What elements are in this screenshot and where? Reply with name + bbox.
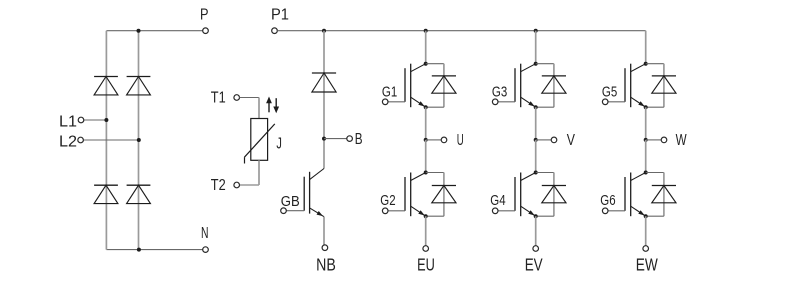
terminal P xyxy=(203,28,209,34)
transistor G3 IGBT xyxy=(498,64,536,107)
diode FWD G5 xyxy=(652,76,676,93)
wire right rail xyxy=(138,31,140,250)
terminal GB xyxy=(281,208,287,214)
label G2 xyxy=(380,193,395,209)
wire leg V rail top xyxy=(535,31,537,64)
wire node V branch xyxy=(536,139,552,141)
svg-text:G3: G3 xyxy=(492,84,507,100)
svg-text:EU: EU xyxy=(417,254,435,274)
svg-text:L1: L1 xyxy=(59,114,77,131)
thermistor J body xyxy=(251,119,268,161)
junction emitter G1 xyxy=(424,105,428,109)
diode D3 xyxy=(127,77,151,95)
temperature arrow up xyxy=(266,97,272,113)
svg-text:G6: G6 xyxy=(600,193,615,209)
diode FWD G6 loop xyxy=(646,173,664,217)
junction bus V xyxy=(534,29,538,33)
label EU xyxy=(417,254,435,274)
wire leg V rail mid1 xyxy=(535,107,537,140)
terminal G4 xyxy=(492,208,498,214)
svg-text:W: W xyxy=(676,132,688,149)
diode FWD G5 loop xyxy=(646,64,664,107)
svg-text:G4: G4 xyxy=(490,193,505,209)
svg-text:G2: G2 xyxy=(380,193,395,209)
junction bus brake xyxy=(322,29,326,33)
wire node B branch xyxy=(324,138,347,140)
diode FWD G3 xyxy=(542,76,566,93)
temperature arrow down xyxy=(273,98,279,113)
terminal V xyxy=(551,137,557,143)
wire leg U rail top xyxy=(425,31,427,64)
junction node L1 xyxy=(104,118,108,122)
label GB xyxy=(281,194,300,210)
transistor brake IGBT xyxy=(286,169,324,217)
junction emitter G2 xyxy=(424,214,428,218)
svg-text:GB: GB xyxy=(281,194,300,210)
wire node W branch xyxy=(646,139,662,141)
junction bottom right rail xyxy=(137,248,141,252)
terminal L1 xyxy=(78,117,84,123)
svg-text:L2: L2 xyxy=(59,134,77,151)
diode FWD G1 xyxy=(432,76,456,93)
diode D2 xyxy=(94,185,118,203)
junction node U xyxy=(424,138,428,142)
svg-text:P: P xyxy=(200,7,209,24)
terminal G5 xyxy=(602,99,608,105)
terminal W xyxy=(661,137,667,143)
svg-text:T2: T2 xyxy=(211,177,226,194)
svg-text:G5: G5 xyxy=(602,84,617,100)
terminal N xyxy=(203,247,209,253)
junction collector G4 xyxy=(534,171,538,175)
junction top right rail xyxy=(137,29,141,33)
diode FWD G3 loop xyxy=(536,64,554,107)
diode FWD G1 loop xyxy=(426,64,444,107)
terminal NB xyxy=(322,245,328,251)
terminal EV xyxy=(533,246,539,252)
wire leg V rail bottom xyxy=(535,216,537,246)
junction collector G2 xyxy=(424,171,428,175)
label P1 xyxy=(271,6,289,23)
wire T1 to thermistor xyxy=(240,98,260,119)
label J xyxy=(276,136,282,153)
transistor G6 IGBT xyxy=(608,173,646,217)
svg-text:U: U xyxy=(457,132,464,149)
label G1 xyxy=(382,84,397,100)
wire T2 to thermistor xyxy=(240,160,260,185)
junction collector G1 xyxy=(424,62,428,66)
terminal G2 xyxy=(382,208,388,214)
terminal L2 xyxy=(78,137,84,143)
junction collector G3 xyxy=(534,62,538,66)
diode D1 xyxy=(94,77,118,95)
wire leg W rail top xyxy=(645,31,647,64)
diode FWD G4 xyxy=(542,186,566,203)
label P xyxy=(200,7,209,24)
svg-text:T1: T1 xyxy=(211,90,226,107)
junction collector G5 xyxy=(644,62,648,66)
diode FWD G4 loop xyxy=(536,173,554,217)
diode FWD G6 xyxy=(652,186,676,203)
label N xyxy=(201,225,209,242)
svg-text:N: N xyxy=(201,225,209,242)
terminal U xyxy=(441,137,447,143)
wire left rail xyxy=(105,31,107,250)
svg-text:B: B xyxy=(355,131,363,148)
terminal B xyxy=(347,136,353,142)
svg-text:NB: NB xyxy=(316,254,336,274)
wire brake emitter xyxy=(323,217,325,245)
wire leg U rail mid1 xyxy=(425,107,427,140)
label NB xyxy=(316,254,336,274)
label G5 xyxy=(602,84,617,100)
wire leg V rail mid2 xyxy=(535,140,537,173)
terminal G3 xyxy=(492,99,498,105)
junction bus U xyxy=(424,29,428,33)
terminal G1 xyxy=(382,99,388,105)
wire brake rail top xyxy=(323,31,325,169)
label EV xyxy=(525,254,543,274)
junction emitter G5 xyxy=(644,105,648,109)
wire leg W rail bottom xyxy=(645,216,647,246)
wire P1 bus xyxy=(277,30,645,32)
diode FWD G2 xyxy=(432,186,456,203)
transistor G2 IGBT xyxy=(388,173,426,217)
label L2 xyxy=(59,134,77,151)
junction node L2 xyxy=(137,138,141,142)
terminal EW xyxy=(643,246,649,252)
label B xyxy=(355,131,363,148)
label T1 xyxy=(211,90,226,107)
label U xyxy=(457,132,464,149)
thermistor J diagonal xyxy=(244,124,274,164)
wire leg U rail bottom xyxy=(425,216,427,246)
wire L1 input xyxy=(84,119,107,121)
junction emitter G4 xyxy=(534,214,538,218)
junction emitter G6 xyxy=(644,214,648,218)
wire node U branch xyxy=(426,139,442,141)
diode D4 xyxy=(127,185,151,203)
junction collector G6 xyxy=(644,171,648,175)
label V xyxy=(567,132,575,149)
transistor G5 IGBT xyxy=(608,64,646,107)
wire rectifier top bus xyxy=(106,30,202,32)
wire rectifier bottom bus xyxy=(106,249,202,251)
label EW xyxy=(636,254,658,274)
label L1 xyxy=(59,114,77,131)
label G3 xyxy=(492,84,507,100)
terminal EU xyxy=(423,246,429,252)
diode D7 brake xyxy=(312,73,336,92)
diode FWD G2 loop xyxy=(426,173,444,217)
svg-text:EV: EV xyxy=(525,254,543,274)
svg-text:EW: EW xyxy=(636,254,658,274)
junction node W xyxy=(644,138,648,142)
junction emitter G3 xyxy=(534,105,538,109)
label T2 xyxy=(211,177,226,194)
svg-text:V: V xyxy=(567,132,575,149)
transistor G4 IGBT xyxy=(498,173,536,217)
wire leg U rail mid2 xyxy=(425,140,427,173)
transistor G1 IGBT xyxy=(388,64,426,107)
svg-text:G1: G1 xyxy=(382,84,397,100)
label G6 xyxy=(600,193,615,209)
svg-text:J: J xyxy=(276,136,282,153)
wire L2 input xyxy=(83,139,138,141)
terminal G6 xyxy=(602,208,608,214)
svg-text:P1: P1 xyxy=(271,6,289,23)
wire leg W rail mid1 xyxy=(645,107,647,140)
junction node B xyxy=(322,137,326,141)
wire leg W rail mid2 xyxy=(645,140,647,173)
terminal T1 xyxy=(234,95,240,101)
label W xyxy=(676,132,688,149)
label G4 xyxy=(490,193,505,209)
junction node V xyxy=(534,138,538,142)
terminal P1 xyxy=(272,28,278,34)
terminal T2 xyxy=(234,182,240,188)
